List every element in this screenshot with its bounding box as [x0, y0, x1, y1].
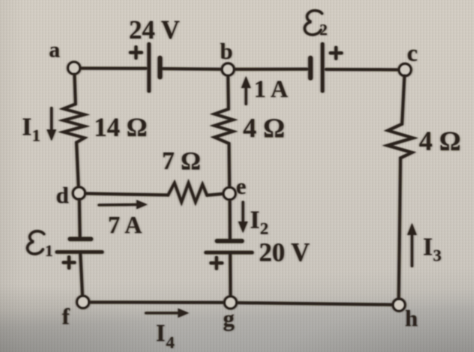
wire b down to resistor 4 — [227, 76, 231, 110]
node e — [224, 188, 236, 200]
svg-text:3: 3 — [433, 246, 442, 265]
svg-text:4 Ω: 4 Ω — [419, 126, 461, 156]
node d — [73, 187, 85, 199]
svg-text:g: g — [223, 306, 235, 331]
label 7 ohm — [162, 148, 201, 175]
battery 24V short plate — [158, 58, 163, 77]
wire d down to battery EMF1 — [78, 199, 82, 239]
label c — [407, 41, 418, 67]
label 14 ohm — [94, 113, 147, 142]
wire d to resistor 7 — [85, 194, 168, 196]
battery EMF2 short plate — [308, 58, 313, 78]
node h — [393, 299, 405, 311]
resistor 14 ohm zigzag — [64, 104, 85, 143]
label EMF1 script E — [27, 231, 44, 254]
svg-text:c: c — [407, 41, 418, 67]
svg-text:h: h — [405, 306, 418, 331]
label h — [405, 306, 418, 331]
label EMF1 subscript 1 — [45, 243, 53, 260]
battery EMF1 plus sign — [64, 257, 75, 268]
node f — [77, 296, 89, 308]
wire EMF2 battery to node c — [326, 68, 399, 71]
battery 24V long plate (+) — [147, 44, 151, 91]
label e — [236, 174, 246, 199]
label 4 ohm right — [419, 126, 461, 156]
label 20 V — [259, 238, 310, 267]
wire EMF1 battery to node f — [80, 252, 82, 297]
resistor 4 ohm middle zigzag — [215, 109, 234, 144]
arrow I2 down — [238, 202, 248, 233]
wire resistor 7 to node e — [207, 194, 224, 196]
label I2 — [250, 207, 269, 238]
wire g to h bottom — [237, 303, 394, 305]
battery 20V short plate — [217, 239, 242, 243]
wire e down to 20V battery — [228, 200, 231, 240]
battery 24V plus sign — [131, 47, 142, 58]
battery 20V long plate (+) — [206, 251, 252, 255]
wire b to EMF2 battery — [234, 68, 307, 71]
svg-text:14 Ω: 14 Ω — [94, 113, 147, 142]
wire a down to resistor 14 — [75, 74, 76, 104]
node a — [68, 62, 80, 74]
label a — [49, 37, 60, 62]
battery 20V plus sign — [211, 258, 222, 269]
battery EMF2 long plate (+) — [321, 44, 325, 91]
node b — [222, 63, 234, 75]
svg-text:1: 1 — [45, 243, 53, 260]
wire resistor 14 to node d — [77, 143, 79, 188]
label I4 — [156, 321, 175, 352]
svg-text:4: 4 — [166, 333, 175, 352]
svg-text:b: b — [220, 39, 233, 64]
svg-text:2: 2 — [260, 219, 269, 238]
resistor 7 ohm zigzag — [168, 183, 207, 202]
wire 20V battery to node g — [229, 253, 232, 297]
label EMF2 subscript 2 — [320, 22, 328, 39]
label 4 ohm middle — [243, 113, 285, 143]
arrow I4 right — [146, 308, 189, 317]
svg-text:a: a — [49, 37, 60, 62]
svg-text:4 Ω: 4 Ω — [243, 113, 285, 143]
wire 24V battery to node b — [160, 67, 222, 71]
battery EMF2 plus sign — [331, 48, 342, 59]
label f — [62, 304, 70, 329]
svg-text:I: I — [250, 207, 260, 234]
wire c down to resistor 4 right — [402, 76, 405, 125]
label d — [56, 183, 69, 208]
label g — [223, 306, 235, 331]
arrow 7A right — [99, 200, 148, 209]
svg-text:1 A: 1 A — [254, 77, 289, 103]
resistor 4 ohm right zigzag — [388, 124, 414, 158]
svg-text:20 V: 20 V — [259, 238, 310, 267]
arrow 1A up — [241, 76, 251, 104]
label 24 V — [129, 16, 180, 45]
svg-text:1: 1 — [32, 126, 41, 145]
arrow I1 down — [47, 108, 57, 141]
battery EMF1 short plate — [70, 237, 91, 241]
label I1 — [22, 114, 41, 145]
svg-text:f: f — [62, 304, 70, 329]
label EMF2 script E — [305, 10, 322, 34]
label I3 — [423, 234, 442, 265]
svg-text:d: d — [56, 183, 69, 208]
svg-text:I: I — [156, 321, 165, 347]
svg-text:I: I — [22, 114, 32, 141]
svg-text:I: I — [423, 234, 433, 261]
label 1 A — [254, 77, 289, 103]
label b — [220, 39, 233, 64]
wire resistor 4 right to node h — [399, 158, 401, 299]
svg-text:2: 2 — [320, 22, 328, 39]
svg-text:24 V: 24 V — [129, 16, 180, 45]
battery EMF1 long plate (+) — [57, 250, 102, 254]
node g — [225, 297, 237, 309]
wire f to g bottom — [89, 301, 225, 304]
svg-text:7 A: 7 A — [108, 213, 143, 239]
node c — [399, 64, 411, 76]
svg-text:e: e — [236, 174, 246, 199]
wire resistor 4 to node e — [228, 144, 232, 188]
arrow I3 up — [407, 223, 417, 266]
wire a to 24V battery — [79, 67, 146, 70]
label 7 A — [108, 213, 143, 239]
svg-text:7 Ω: 7 Ω — [162, 148, 201, 175]
